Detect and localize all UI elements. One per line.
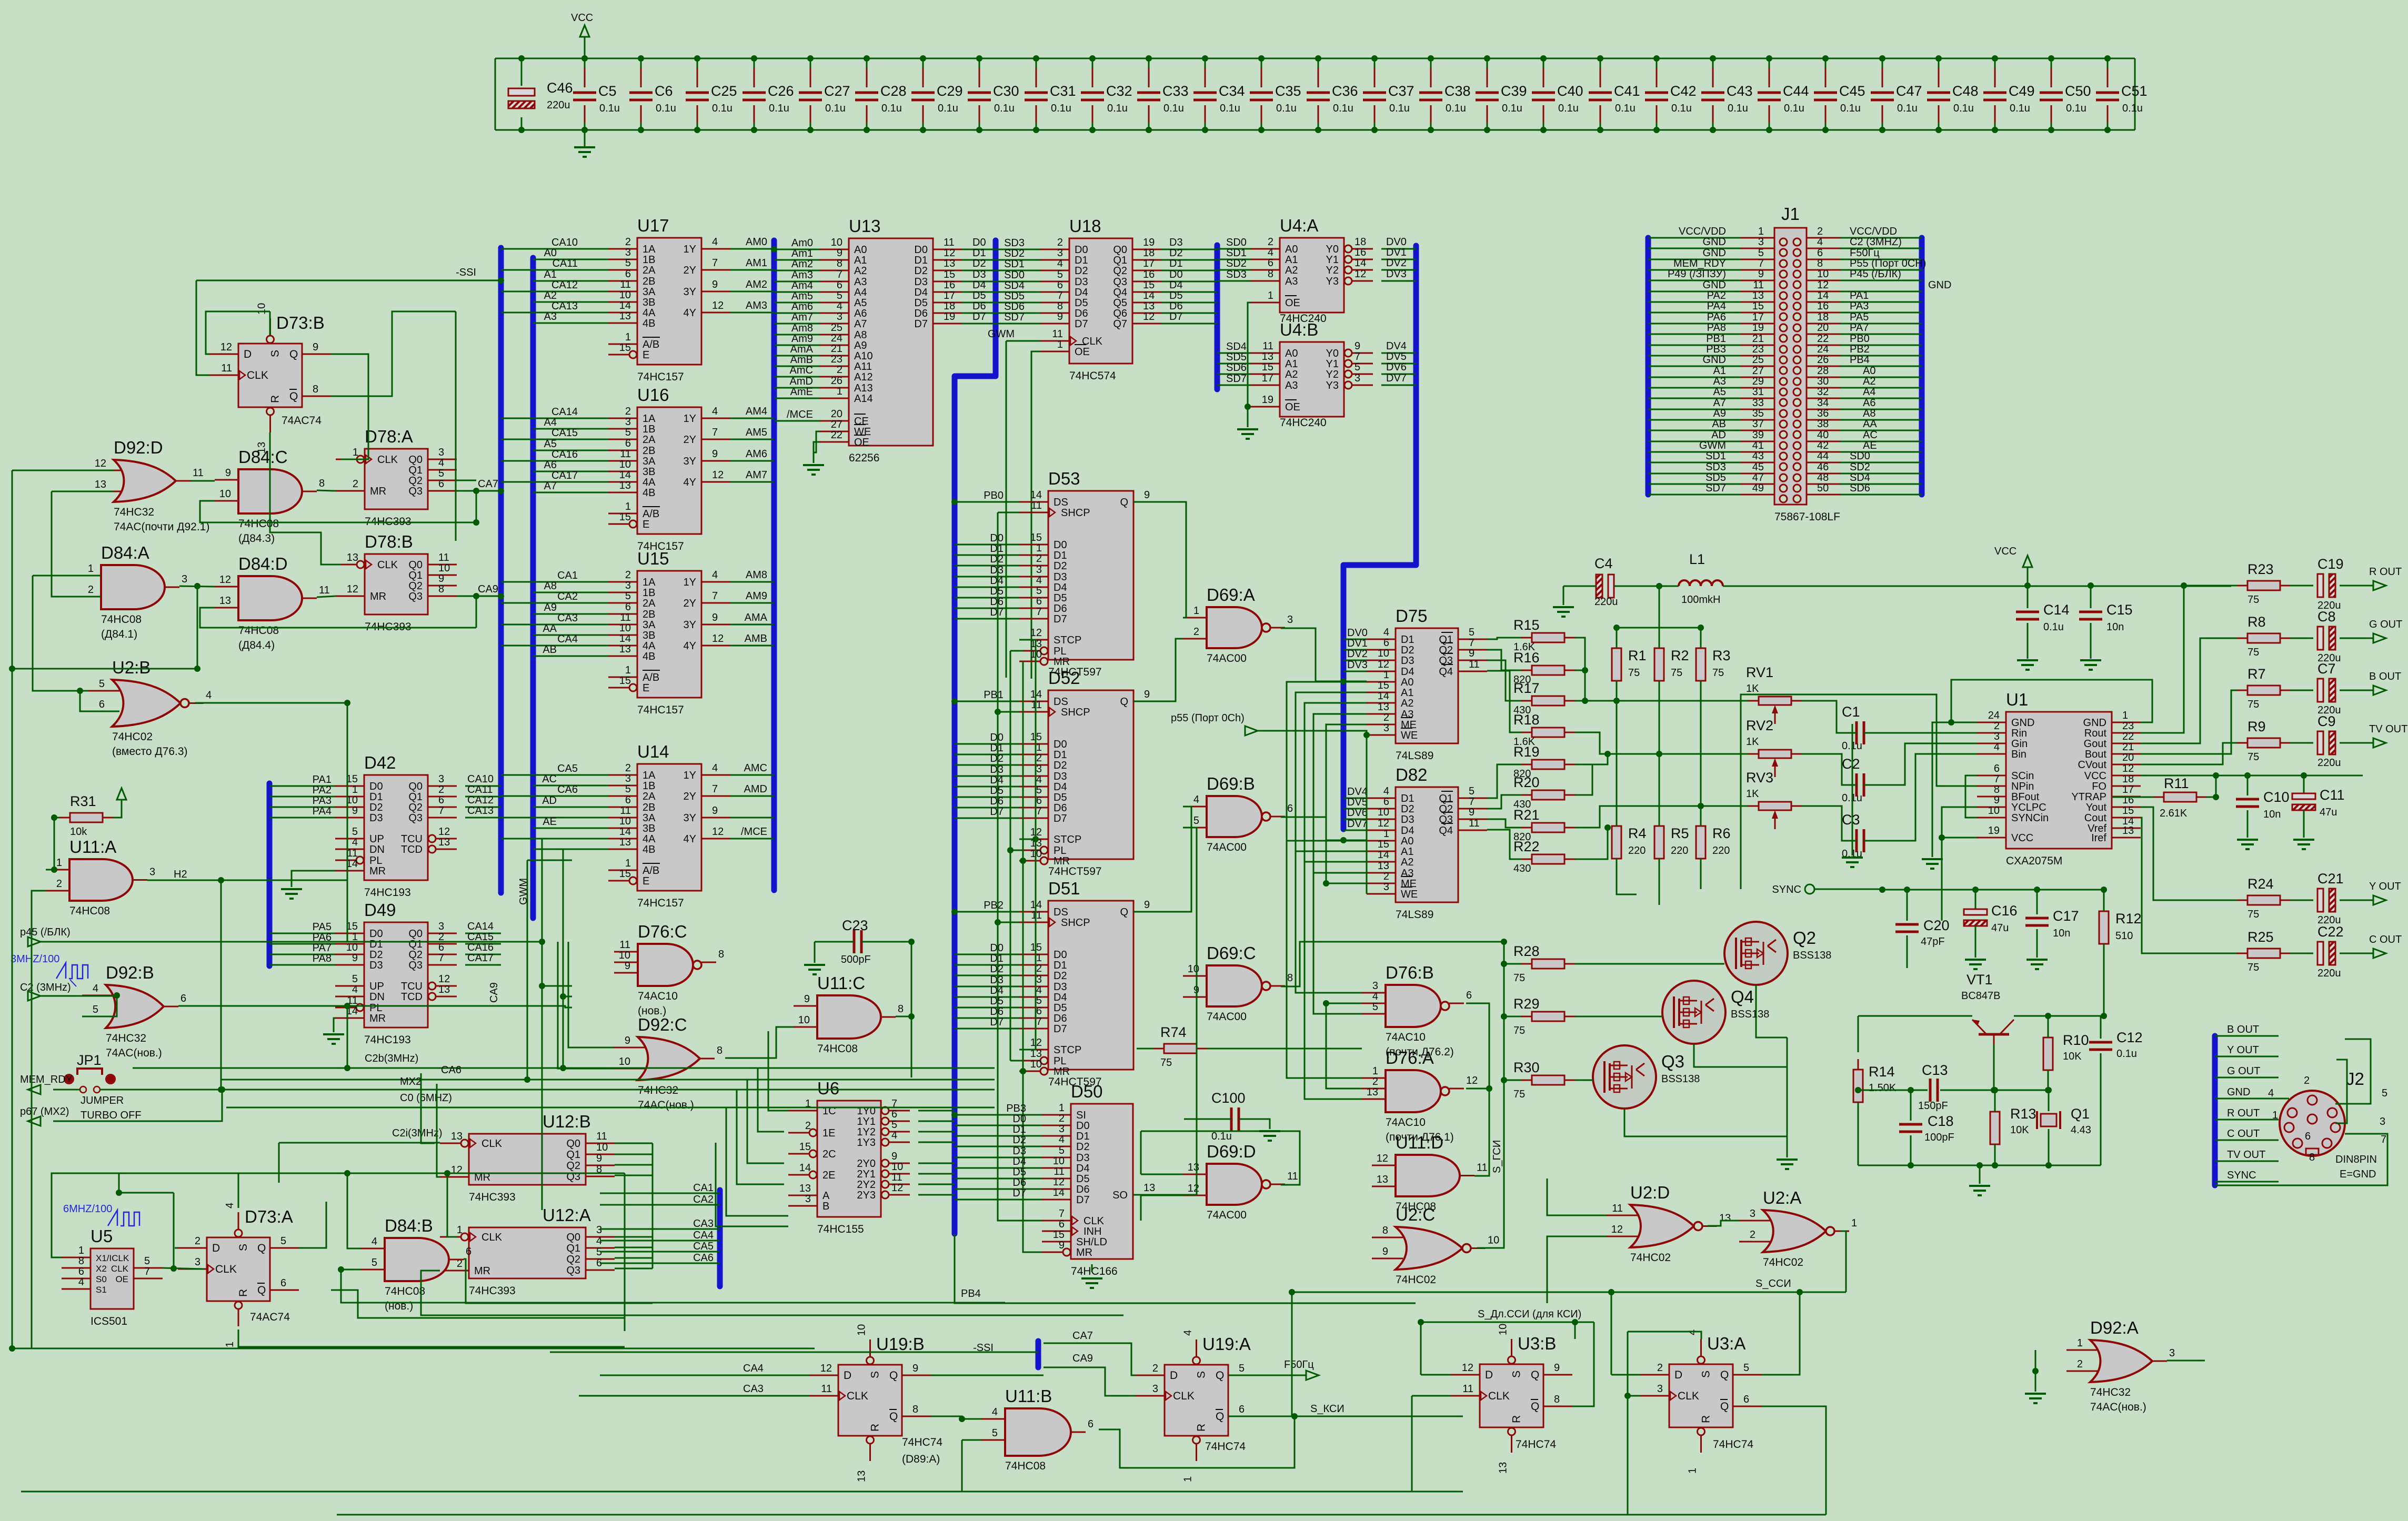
- svg-text:9: 9: [1144, 489, 1150, 501]
- svg-text:D3: D3: [1076, 1152, 1090, 1164]
- svg-text:C4: C4: [1594, 556, 1613, 571]
- svg-text:S: S: [1511, 1371, 1523, 1378]
- svg-text:U4:A: U4:A: [1280, 216, 1318, 235]
- svg-text:D0: D0: [990, 942, 1004, 954]
- svg-text:A6: A6: [1863, 397, 1875, 409]
- svg-text:D42: D42: [364, 753, 396, 772]
- svg-text:JP1: JP1: [77, 1052, 102, 1068]
- svg-text:TCD: TCD: [401, 991, 423, 1003]
- svg-text:14: 14: [619, 826, 631, 838]
- svg-text:9: 9: [1758, 268, 1764, 280]
- svg-text:S: S: [1700, 1371, 1712, 1378]
- svg-text:16: 16: [1354, 247, 1366, 258]
- svg-text:Q0: Q0: [408, 454, 423, 466]
- svg-text:VCC: VCC: [2084, 770, 2106, 782]
- svg-text:D5: D5: [1012, 1166, 1026, 1178]
- svg-text:10: 10: [1378, 807, 1389, 818]
- svg-text:Q: Q: [1216, 1369, 1224, 1382]
- svg-text:47: 47: [1752, 472, 1764, 484]
- svg-text:A2: A2: [1863, 376, 1875, 387]
- svg-text:D82: D82: [1396, 765, 1428, 784]
- svg-text:50: 50: [1817, 482, 1829, 494]
- svg-text:74HC08: 74HC08: [69, 905, 110, 917]
- svg-text:9: 9: [1354, 340, 1360, 352]
- svg-text:6: 6: [180, 993, 186, 1004]
- svg-text:1: 1: [1036, 742, 1042, 753]
- svg-text:SD0: SD0: [1226, 237, 1247, 248]
- svg-text:6: 6: [625, 268, 631, 280]
- svg-text:D2: D2: [972, 258, 986, 269]
- svg-text:10: 10: [438, 562, 450, 574]
- svg-text:D6: D6: [1169, 300, 1183, 312]
- svg-text:C6: C6: [655, 83, 673, 99]
- svg-text:13: 13: [1367, 1086, 1378, 1098]
- svg-text:8: 8: [898, 1003, 904, 1015]
- svg-text:1: 1: [1758, 226, 1764, 237]
- svg-text:D1: D1: [1076, 1131, 1090, 1142]
- svg-text:C49: C49: [2009, 83, 2035, 99]
- svg-text:S0: S0: [96, 1274, 107, 1284]
- svg-text:SD4: SD4: [1004, 280, 1025, 291]
- svg-text:GND: GND: [1703, 279, 1726, 291]
- svg-text:AB: AB: [1712, 418, 1726, 430]
- svg-text:11: 11: [347, 848, 358, 859]
- svg-text:6: 6: [1088, 1418, 1093, 1430]
- svg-text:A/B: A/B: [643, 339, 659, 350]
- svg-text:4: 4: [1383, 785, 1389, 797]
- svg-text:0.1u: 0.1u: [825, 103, 846, 114]
- svg-text:D1: D1: [369, 939, 383, 950]
- svg-text:74HC32: 74HC32: [106, 1032, 146, 1044]
- svg-text:4: 4: [1059, 1134, 1065, 1145]
- svg-text:11: 11: [1753, 279, 1764, 291]
- svg-text:42: 42: [1817, 440, 1829, 451]
- svg-text:15: 15: [619, 868, 631, 880]
- svg-text:9: 9: [1554, 1362, 1560, 1374]
- svg-text:Q2: Q2: [408, 475, 423, 487]
- svg-text:74HC08: 74HC08: [817, 1043, 858, 1055]
- svg-text:AmE: AmE: [790, 386, 813, 398]
- svg-text:D7: D7: [990, 1016, 1004, 1028]
- svg-text:6: 6: [1743, 1394, 1749, 1405]
- svg-text:100pF: 100pF: [1924, 1132, 1954, 1143]
- svg-text:12: 12: [1354, 268, 1366, 280]
- svg-text:10: 10: [1378, 648, 1389, 659]
- svg-text:C26: C26: [768, 83, 794, 99]
- svg-text:Q: Q: [289, 348, 298, 360]
- svg-text:PA1: PA1: [313, 774, 332, 785]
- svg-text:D0: D0: [990, 532, 1004, 544]
- svg-text:Q: Q: [1120, 696, 1128, 708]
- svg-text:R25: R25: [2248, 929, 2274, 945]
- svg-text:D2: D2: [1053, 760, 1067, 771]
- svg-text:R: R: [1700, 1415, 1712, 1423]
- svg-text:12: 12: [712, 300, 724, 311]
- svg-text:2: 2: [1817, 226, 1823, 237]
- svg-text:20: 20: [1817, 322, 1829, 334]
- svg-text:2: 2: [1994, 720, 2000, 732]
- svg-text:430: 430: [1513, 863, 1531, 874]
- svg-text:3: 3: [1372, 980, 1378, 992]
- svg-text:D5: D5: [972, 290, 986, 301]
- svg-text:SD7: SD7: [1705, 482, 1726, 494]
- svg-text:220u: 220u: [547, 99, 570, 111]
- svg-text:220u: 220u: [1594, 596, 1618, 608]
- svg-text:D7: D7: [1076, 1194, 1090, 1206]
- svg-text:11: 11: [1469, 659, 1480, 670]
- svg-text:CLK: CLK: [847, 1390, 868, 1402]
- svg-text:15: 15: [619, 342, 631, 354]
- svg-text:0.1u: 0.1u: [1446, 103, 1466, 114]
- svg-text:6: 6: [438, 794, 444, 806]
- svg-text:H2: H2: [174, 869, 187, 880]
- svg-text:8: 8: [837, 258, 842, 269]
- svg-text:74AC(почти Д92.1): 74AC(почти Д92.1): [114, 521, 209, 533]
- svg-text:12: 12: [451, 1164, 463, 1176]
- svg-text:R10: R10: [2063, 1032, 2089, 1048]
- svg-text:p55 (Порт 0Ch): p55 (Порт 0Ch): [1171, 712, 1245, 724]
- svg-text:/MCE: /MCE: [741, 826, 767, 838]
- svg-text:13: 13: [1262, 351, 1273, 362]
- svg-text:A8: A8: [544, 580, 557, 592]
- svg-text:5: 5: [93, 1004, 98, 1015]
- svg-text:4: 4: [1036, 774, 1042, 785]
- svg-text:13: 13: [856, 1470, 868, 1482]
- svg-text:0.1u: 0.1u: [938, 103, 958, 114]
- svg-text:U11:C: U11:C: [817, 973, 865, 993]
- svg-text:10: 10: [1988, 805, 2000, 817]
- svg-text:3: 3: [1758, 236, 1764, 248]
- svg-text:AC: AC: [1863, 429, 1878, 441]
- svg-text:12: 12: [219, 574, 231, 586]
- svg-text:8: 8: [1382, 1225, 1388, 1236]
- svg-text:Q0: Q0: [566, 1138, 580, 1150]
- svg-text:SD1: SD1: [1226, 247, 1247, 259]
- svg-text:5: 5: [2382, 1087, 2387, 1099]
- svg-text:12: 12: [712, 633, 724, 644]
- svg-text:D7: D7: [1053, 613, 1067, 625]
- svg-text:Q0: Q0: [408, 928, 423, 940]
- svg-text:CLK: CLK: [1488, 1390, 1510, 1402]
- svg-text:D2: D2: [1076, 1141, 1090, 1153]
- svg-text:13: 13: [438, 984, 450, 995]
- svg-text:74HC240: 74HC240: [1280, 417, 1327, 429]
- svg-text:13: 13: [1188, 1162, 1199, 1173]
- svg-text:p67 (MX2): p67 (MX2): [20, 1106, 69, 1117]
- svg-text:0.1u: 0.1u: [1671, 103, 1692, 114]
- svg-text:74LS89: 74LS89: [1396, 909, 1433, 921]
- svg-text:5: 5: [625, 590, 631, 602]
- svg-text:2: 2: [88, 584, 94, 596]
- svg-text:CA10: CA10: [551, 237, 578, 248]
- svg-text:4: 4: [891, 1130, 897, 1141]
- svg-text:R: R: [1511, 1415, 1523, 1423]
- svg-text:SD6: SD6: [1004, 301, 1025, 313]
- svg-text:47u: 47u: [2320, 807, 2337, 818]
- svg-text:21: 21: [2122, 741, 2134, 753]
- svg-text:A3: A3: [1401, 709, 1413, 720]
- svg-text:2: 2: [1193, 626, 1199, 638]
- svg-text:CLK: CLK: [481, 1232, 503, 1243]
- svg-text:A3: A3: [1401, 868, 1413, 879]
- svg-text:1: 1: [625, 501, 631, 512]
- svg-text:C30: C30: [993, 83, 1019, 99]
- svg-text:6: 6: [2305, 1131, 2311, 1142]
- svg-text:R24: R24: [2248, 876, 2274, 892]
- svg-text:CA5: CA5: [557, 763, 578, 774]
- svg-text:MR: MR: [369, 1013, 386, 1024]
- svg-text:PB2: PB2: [1850, 344, 1870, 355]
- svg-text:9: 9: [313, 341, 318, 353]
- svg-text:C9: C9: [2317, 713, 2336, 729]
- svg-text:13: 13: [619, 480, 631, 491]
- svg-text:Y1: Y1: [1326, 254, 1339, 266]
- svg-text:17: 17: [2122, 784, 2134, 795]
- svg-text:CLK: CLK: [1173, 1390, 1195, 1402]
- svg-text:2.61K: 2.61K: [2160, 808, 2188, 819]
- svg-text:2: 2: [805, 1120, 811, 1132]
- svg-text:Q4: Q4: [1439, 825, 1453, 837]
- svg-text:PA7: PA7: [1850, 322, 1869, 334]
- svg-text:CA1: CA1: [557, 570, 578, 581]
- svg-text:PL: PL: [369, 1002, 382, 1014]
- svg-text:R21: R21: [1513, 807, 1540, 823]
- svg-text:4: 4: [1182, 1330, 1194, 1336]
- svg-text:MR: MR: [1076, 1247, 1092, 1258]
- svg-text:0.1u: 0.1u: [1897, 103, 1918, 114]
- svg-text:12: 12: [95, 458, 106, 469]
- svg-text:A0: A0: [854, 244, 867, 256]
- svg-text:D: D: [244, 348, 252, 360]
- svg-text:5: 5: [1743, 1362, 1749, 1374]
- svg-text:C1: C1: [1842, 704, 1860, 720]
- svg-text:D7: D7: [972, 311, 986, 323]
- svg-text:19: 19: [1988, 825, 2000, 837]
- svg-text:PB0: PB0: [1850, 333, 1870, 345]
- svg-text:Yout: Yout: [2086, 802, 2107, 813]
- svg-text:10: 10: [856, 1324, 868, 1336]
- svg-text:49: 49: [1752, 482, 1764, 494]
- svg-text:D78:A: D78:A: [365, 427, 413, 446]
- svg-text:13: 13: [1377, 1174, 1388, 1185]
- svg-text:5: 5: [99, 678, 105, 690]
- svg-text:10k: 10k: [70, 826, 87, 838]
- svg-text:S: S: [869, 1371, 881, 1378]
- svg-text:DV3: DV3: [1347, 659, 1368, 671]
- svg-text:D3: D3: [1401, 814, 1414, 825]
- svg-text:75: 75: [1160, 1057, 1172, 1069]
- svg-text:6: 6: [1817, 247, 1823, 259]
- svg-text:D76:B: D76:B: [1386, 963, 1434, 982]
- svg-text:Q: Q: [1720, 1401, 1729, 1413]
- svg-text:D2: D2: [990, 963, 1004, 975]
- svg-text:D3: D3: [914, 276, 928, 288]
- svg-text:DV4: DV4: [1386, 340, 1407, 352]
- svg-text:47pF: 47pF: [1921, 936, 1945, 948]
- svg-text:2: 2: [1036, 752, 1042, 764]
- svg-text:75: 75: [2248, 647, 2259, 658]
- svg-text:VCC: VCC: [2011, 832, 2033, 844]
- svg-text:D: D: [1674, 1369, 1682, 1381]
- svg-text:GND: GND: [1928, 279, 1951, 291]
- svg-text:9: 9: [1994, 794, 2000, 806]
- svg-text:OE: OE: [115, 1274, 128, 1284]
- svg-text:Q1: Q1: [408, 465, 423, 476]
- svg-text:C2b(3MHz): C2b(3MHz): [365, 1053, 418, 1064]
- svg-text:74LS89: 74LS89: [1396, 750, 1433, 762]
- svg-text:C32: C32: [1106, 83, 1132, 99]
- svg-text:6: 6: [280, 1277, 286, 1289]
- svg-text:R: R: [269, 395, 282, 403]
- svg-text:12: 12: [1817, 279, 1829, 291]
- svg-text:D6: D6: [1012, 1177, 1026, 1188]
- svg-text:-SSI: -SSI: [456, 267, 476, 278]
- svg-text:A0: A0: [1285, 348, 1298, 359]
- svg-text:3MHZ/100: 3MHZ/100: [11, 953, 59, 965]
- svg-text:CA13: CA13: [551, 300, 578, 312]
- svg-text:ME: ME: [1401, 878, 1417, 890]
- svg-text:D0: D0: [1053, 739, 1067, 750]
- svg-text:Q: Q: [289, 390, 298, 402]
- svg-text:CA6: CA6: [441, 1064, 461, 1076]
- svg-text:CLK: CLK: [377, 559, 398, 571]
- svg-text:13: 13: [1378, 860, 1389, 872]
- svg-text:SD3: SD3: [1226, 269, 1247, 280]
- svg-text:AE: AE: [1863, 440, 1877, 451]
- svg-text:12: 12: [1378, 659, 1389, 670]
- svg-text:D1: D1: [369, 791, 383, 803]
- svg-text:SD5: SD5: [1226, 351, 1247, 363]
- svg-text:CA9: CA9: [1072, 1353, 1093, 1364]
- svg-text:33: 33: [1752, 397, 1764, 409]
- svg-text:MEM_RDY: MEM_RDY: [1673, 258, 1726, 269]
- svg-text:6: 6: [837, 279, 842, 291]
- svg-text:C36: C36: [1332, 83, 1358, 99]
- svg-text:3B: 3B: [643, 297, 655, 308]
- svg-text:62256: 62256: [849, 452, 879, 464]
- svg-text:15: 15: [1053, 1229, 1065, 1241]
- svg-text:75: 75: [2248, 699, 2259, 710]
- svg-text:Q3: Q3: [1661, 1052, 1684, 1071]
- svg-text:74HC393: 74HC393: [469, 1191, 516, 1203]
- svg-text:40: 40: [1817, 429, 1829, 441]
- svg-text:SH/LD: SH/LD: [1076, 1236, 1107, 1248]
- svg-text:D4: D4: [1401, 825, 1414, 837]
- svg-text:Q2: Q2: [1793, 928, 1816, 948]
- svg-text:D0: D0: [990, 732, 1004, 743]
- svg-text:E: E: [643, 519, 649, 530]
- svg-text:CA9: CA9: [488, 982, 500, 1003]
- svg-text:2Y0: 2Y0: [857, 1158, 876, 1170]
- svg-text:Q3: Q3: [408, 486, 423, 497]
- svg-text:13: 13: [219, 595, 231, 607]
- svg-text:F50Гц: F50Гц: [1850, 247, 1880, 259]
- svg-text:74AC00: 74AC00: [1207, 841, 1247, 853]
- svg-text:SI: SI: [1076, 1110, 1086, 1121]
- svg-text:C42: C42: [1670, 83, 1697, 99]
- svg-text:11: 11: [1462, 1383, 1473, 1395]
- svg-text:16: 16: [1143, 269, 1155, 280]
- svg-text:MR: MR: [1053, 1066, 1070, 1077]
- svg-text:11: 11: [1477, 1162, 1488, 1174]
- svg-text:DN: DN: [369, 991, 385, 1003]
- svg-text:Q3: Q3: [408, 960, 423, 971]
- svg-text:A0: A0: [1863, 365, 1875, 377]
- svg-text:D1: D1: [1075, 255, 1088, 266]
- svg-text:19: 19: [1752, 322, 1764, 334]
- svg-text:0.1u: 0.1u: [1220, 103, 1240, 114]
- svg-text:SD4: SD4: [1850, 472, 1870, 484]
- svg-text:3B: 3B: [643, 466, 655, 478]
- svg-text:SCin: SCin: [2011, 770, 2034, 782]
- svg-text:4A: 4A: [643, 307, 656, 319]
- svg-text:13: 13: [438, 837, 450, 848]
- svg-text:Q1: Q1: [566, 1243, 580, 1254]
- svg-text:74HC02: 74HC02: [112, 731, 153, 743]
- svg-text:SD2: SD2: [1850, 461, 1870, 473]
- svg-text:3: 3: [596, 1224, 602, 1236]
- svg-text:9: 9: [625, 960, 630, 972]
- svg-text:21: 21: [831, 343, 842, 355]
- svg-text:CLK: CLK: [1678, 1390, 1699, 1402]
- svg-text:X2: X2: [96, 1264, 107, 1274]
- svg-text:C45: C45: [1839, 83, 1865, 99]
- svg-text:5: 5: [1193, 815, 1199, 827]
- svg-text:6: 6: [1268, 257, 1273, 269]
- svg-text:A6: A6: [544, 459, 557, 471]
- svg-text:TCU: TCU: [401, 833, 423, 845]
- svg-text:CA6: CA6: [557, 784, 578, 795]
- svg-text:C46: C46: [547, 80, 573, 96]
- svg-text:A/B: A/B: [643, 865, 659, 877]
- svg-text:9: 9: [438, 573, 444, 585]
- svg-text:D4: D4: [1075, 287, 1088, 298]
- svg-text:11: 11: [620, 612, 631, 623]
- svg-text:0.1u: 0.1u: [881, 103, 902, 114]
- svg-text:5: 5: [992, 1427, 998, 1439]
- svg-text:R7: R7: [2248, 666, 2266, 682]
- svg-text:CA17: CA17: [551, 470, 578, 481]
- svg-text:5: 5: [1758, 247, 1764, 259]
- svg-text:D4: D4: [914, 287, 928, 298]
- svg-text:7: 7: [712, 783, 718, 795]
- svg-text:CLK: CLK: [1083, 1215, 1105, 1227]
- svg-text:A13: A13: [854, 382, 873, 394]
- svg-text:5: 5: [280, 1235, 286, 1247]
- svg-text:4: 4: [1036, 984, 1042, 996]
- svg-text:C17: C17: [2053, 908, 2079, 924]
- svg-text:D7: D7: [1053, 1023, 1067, 1035]
- svg-text:A10: A10: [854, 350, 873, 362]
- svg-text:R6: R6: [1712, 825, 1731, 841]
- svg-text:S: S: [1196, 1371, 1208, 1378]
- svg-text:C5: C5: [598, 83, 617, 99]
- svg-text:14: 14: [619, 469, 631, 481]
- svg-text:1Y: 1Y: [684, 770, 696, 781]
- svg-text:Q: Q: [889, 1369, 898, 1382]
- svg-text:4: 4: [1994, 741, 2000, 753]
- svg-text:YTRAP: YTRAP: [2071, 791, 2106, 803]
- svg-text:Bout: Bout: [2085, 749, 2107, 760]
- svg-text:U11:A: U11:A: [69, 837, 116, 857]
- svg-text:R: R: [1196, 1424, 1208, 1432]
- svg-text:9: 9: [1469, 648, 1474, 659]
- svg-text:0.1u: 0.1u: [2122, 103, 2143, 114]
- svg-text:S: S: [237, 1244, 249, 1251]
- svg-text:A2: A2: [1401, 857, 1413, 868]
- svg-text:9: 9: [804, 993, 810, 1005]
- svg-text:A1: A1: [1713, 365, 1726, 377]
